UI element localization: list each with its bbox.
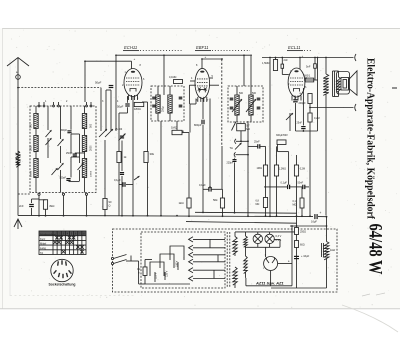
svg-text:200μF: 200μF [299,102,307,105]
svg-text:+: + [320,211,322,215]
svg-text:800pF: 800pF [194,123,202,127]
svg-text:Sockelschaltung: Sockelschaltung [49,283,76,287]
svg-text:500: 500 [239,92,244,95]
svg-text:MΩ: MΩ [293,204,297,207]
svg-text:+: + [302,54,304,58]
svg-text:500: 500 [30,123,33,128]
svg-text:0,2M: 0,2M [314,117,320,120]
svg-text:50nF: 50nF [298,181,304,184]
svg-text:10000: 10000 [91,170,93,177]
svg-text:150 V: 150 V [176,260,179,267]
svg-text:110 V: 110 V [155,273,158,279]
svg-text:0,1μF: 0,1μF [281,181,288,184]
svg-text:50pF: 50pF [95,81,102,85]
svg-text:1MΩ: 1MΩ [257,167,262,170]
svg-text:250pF: 250pF [66,153,73,155]
svg-text:0,1μF: 0,1μF [199,183,206,187]
svg-text:+: + [205,55,207,59]
svg-text:Feld: Feld [330,248,336,252]
svg-text:50pF: 50pF [117,105,124,109]
svg-text:Lang: Lang [40,246,46,250]
svg-text:6,3 V: 6,3 V [276,235,282,238]
svg-text:125 V: 125 V [166,270,169,277]
svg-text:2000: 2000 [30,145,33,151]
svg-text:25nF: 25nF [297,122,303,125]
svg-text:16μF: 16μF [311,219,317,223]
svg-text:1MΩ: 1MΩ [171,126,177,130]
svg-text:0,2M: 0,2M [300,168,305,171]
svg-text:TA: TA [40,251,43,255]
svg-text:5nF: 5nF [306,65,311,69]
svg-text:Ω: Ω [109,204,111,208]
svg-text:60Ω: 60Ω [300,244,305,247]
svg-text:1kΩ: 1kΩ [179,201,184,205]
svg-text:MΩ: MΩ [256,203,260,206]
svg-text:AZ11 bzw. AZ1: AZ11 bzw. AZ1 [255,281,284,286]
svg-text:2nF: 2nF [284,59,289,62]
svg-text:2000: 2000 [90,145,93,151]
svg-text:Elektro-Apparate-Fabrik, Köppe: Elektro-Apparate-Fabrik, Köppelsdorf [365,58,376,220]
svg-text:ECH11: ECH11 [124,45,137,50]
svg-text:250Ω: 250Ω [300,231,306,234]
svg-text:10000: 10000 [31,170,33,177]
svg-text:8kΩ: 8kΩ [50,204,55,208]
svg-text:2nF: 2nF [19,204,24,208]
svg-text:0,1μF: 0,1μF [114,178,121,182]
svg-text:30k: 30k [150,152,155,156]
svg-text:EBF11: EBF11 [196,45,209,50]
svg-text:TA: TA [230,146,234,150]
svg-text:300μF/50V: 300μF/50V [276,134,288,137]
svg-text:1,5MΩ: 1,5MΩ [262,62,270,65]
svg-text:500: 500 [252,92,257,95]
svg-text:500: 500 [90,123,93,128]
svg-text:25nF: 25nF [254,141,260,144]
svg-text:Kurz: Kurz [40,237,46,241]
svg-text:+: + [134,57,136,61]
svg-text:ECL11: ECL11 [288,45,301,50]
svg-text:250μ: 250μ [162,106,165,112]
svg-text:50k: 50k [213,198,218,202]
svg-text:300pF: 300pF [61,130,68,132]
svg-text:+ 16μF: + 16μF [301,254,310,258]
svg-text:Mittel: Mittel [40,242,47,246]
svg-text:0,1MΩ: 0,1MΩ [169,76,177,79]
svg-text:64/48 W: 64/48 W [365,224,386,275]
svg-text:180Ω: 180Ω [134,107,141,111]
svg-text:1,2MΩ: 1,2MΩ [279,168,286,171]
